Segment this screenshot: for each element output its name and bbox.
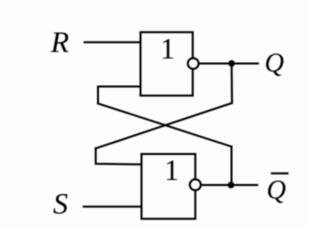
wire feedback Qbar to U1 input (vertical up from Qbar node)	[231, 147, 233, 185]
NOR gate U1 (top, IEC box)	[141, 32, 193, 95]
wire U2 output to Qbar	[201, 184, 257, 186]
wire S input	[84, 206, 142, 208]
svg-text:Q: Q	[267, 174, 287, 204]
output bubble U2	[190, 179, 201, 190]
svg-text:1: 1	[164, 155, 179, 187]
junction node Qbar	[228, 182, 235, 189]
svg-text:S: S	[53, 188, 68, 221]
svg-text:Q: Q	[265, 48, 285, 78]
svg-text:1: 1	[160, 33, 175, 65]
output bubble U1	[188, 58, 199, 69]
wire feedback corner into U1 input	[98, 87, 141, 104]
wire U1 output to Q	[199, 63, 258, 65]
wire feedback Q to U2 input (vertical down from Q node)	[231, 64, 233, 104]
overline of Qbar	[271, 172, 289, 174]
junction node Q	[228, 60, 235, 67]
NOR gate U2 (bottom, IEC box)	[142, 154, 196, 219]
wire feedback diagonal Qbar to U1	[98, 104, 232, 147]
wire feedback corner into U2 input	[96, 148, 142, 164]
wire feedback diagonal Q to U2	[96, 103, 232, 148]
wire R input	[85, 41, 141, 43]
svg-text:R: R	[50, 26, 69, 59]
